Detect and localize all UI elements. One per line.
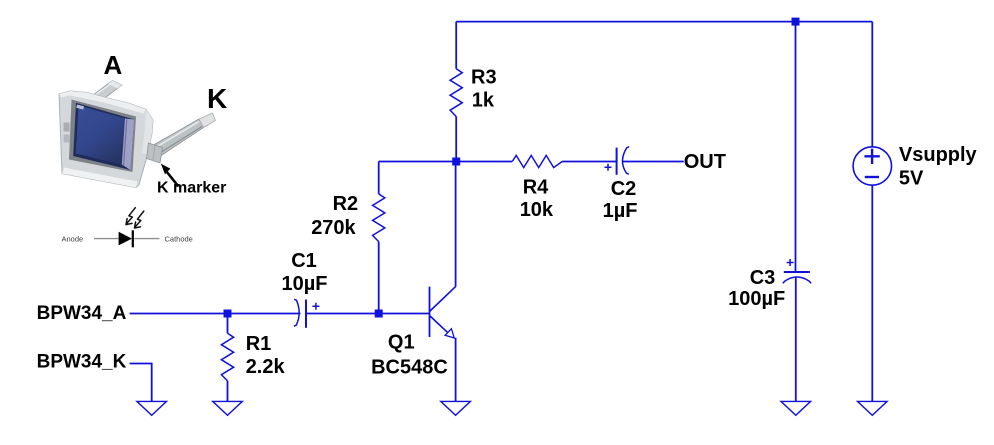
svg-text:5V: 5V bbox=[899, 167, 924, 189]
svg-text:Q1: Q1 bbox=[388, 332, 415, 354]
svg-text:BPW34_A: BPW34_A bbox=[37, 303, 127, 324]
svg-text:C3: C3 bbox=[750, 267, 776, 289]
svg-text:2.2k: 2.2k bbox=[246, 356, 286, 378]
svg-text:100µF: 100µF bbox=[728, 288, 785, 310]
svg-text:BPW34_K: BPW34_K bbox=[37, 351, 127, 372]
svg-text:K marker: K marker bbox=[157, 179, 226, 196]
svg-text:Anode: Anode bbox=[62, 234, 84, 243]
svg-text:10k: 10k bbox=[520, 199, 554, 221]
svg-text:BC548C: BC548C bbox=[371, 357, 448, 379]
svg-text:R1: R1 bbox=[246, 333, 272, 355]
svg-text:OUT: OUT bbox=[684, 151, 726, 173]
svg-text:270k: 270k bbox=[311, 217, 356, 239]
svg-text:10µF: 10µF bbox=[282, 273, 328, 295]
svg-text:1k: 1k bbox=[472, 90, 495, 112]
svg-text:Vsupply: Vsupply bbox=[899, 144, 978, 166]
svg-text:R3: R3 bbox=[471, 67, 497, 89]
svg-text:A: A bbox=[104, 50, 123, 80]
svg-text:R2: R2 bbox=[333, 193, 359, 215]
svg-text:1µF: 1µF bbox=[603, 200, 638, 222]
svg-text:R4: R4 bbox=[523, 177, 549, 199]
svg-text:K: K bbox=[207, 83, 227, 114]
svg-text:C2: C2 bbox=[611, 178, 637, 200]
svg-text:C1: C1 bbox=[291, 250, 317, 272]
svg-text:Cathode: Cathode bbox=[165, 234, 193, 243]
